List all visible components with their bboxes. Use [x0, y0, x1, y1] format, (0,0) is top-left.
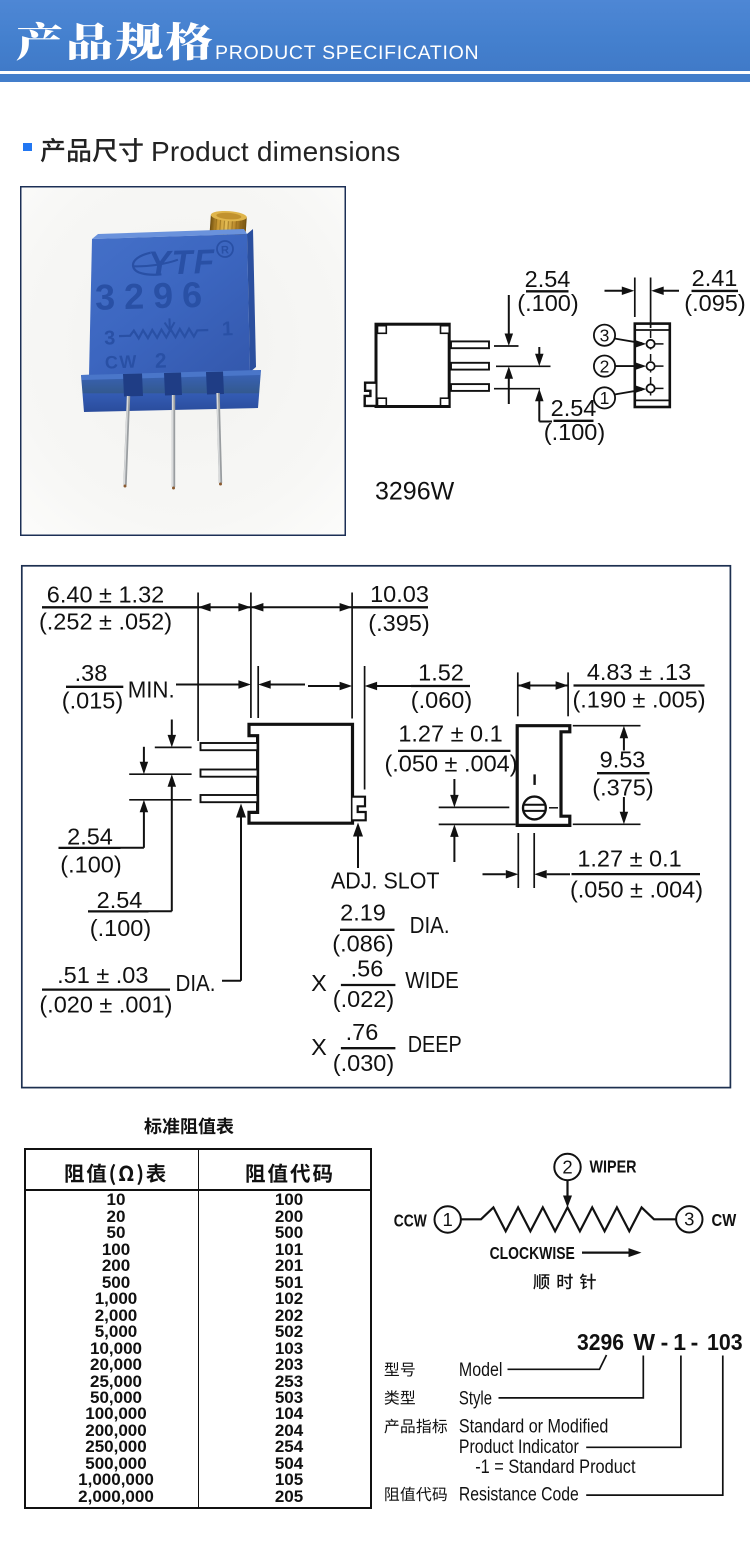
- 顺时针: [533, 1274, 549, 1289]
- svg-text:1.52: 1.52: [418, 660, 464, 686]
- brass adjustment screw: [209, 210, 247, 237]
- pin pitch arrows x=171.8: [171, 720, 173, 743]
- svg-text:R: R: [221, 244, 229, 256]
- screw: [523, 797, 546, 820]
- leader style: [499, 1356, 644, 1398]
- pins: [201, 743, 258, 750]
- svg-text:(.190 ± .005): (.190 ± .005): [572, 687, 705, 713]
- trimmer body right side face: [247, 229, 256, 372]
- svg-text:CCW: CCW: [394, 1211, 427, 1231]
- svg-text:1.27 ± 0.1: 1.27 ± 0.1: [398, 721, 502, 747]
- leader indicator: [586, 1356, 681, 1448]
- svg-text:WIDE: WIDE: [405, 967, 459, 993]
- svg-text:MIN.: MIN.: [128, 677, 175, 703]
- svg-text:(.375): (.375): [592, 775, 653, 801]
- svg-text:(.095): (.095): [684, 290, 745, 316]
- rear package: [635, 324, 670, 407]
- svg-text:(.100): (.100): [90, 915, 151, 941]
- svg-text:(.060): (.060): [411, 687, 472, 713]
- svg-text:4.83 ± .13: 4.83 ± .13: [587, 659, 691, 685]
- circled terminal numbers: [594, 325, 615, 346]
- pin pitch dim lines: [494, 345, 519, 347]
- adj slot label: [357, 828, 359, 868]
- svg-text:CW: CW: [712, 1210, 737, 1230]
- section bullet: [23, 143, 32, 152]
- svg-text:2.41: 2.41: [692, 265, 738, 291]
- svg-text:3: 3: [600, 325, 610, 345]
- svg-text:(.086): (.086): [332, 931, 393, 957]
- dim 10.03: [251, 606, 352, 608]
- table title 标准阻值表: [144, 1117, 236, 1136]
- svg-text:1: 1: [443, 1209, 453, 1230]
- label 型号: [385, 1362, 399, 1376]
- svg-text:2.54: 2.54: [551, 395, 597, 421]
- dim arrows pin2-pin3: [538, 347, 540, 361]
- trimmer body top sliver: [92, 229, 247, 239]
- svg-text:9.53: 9.53: [600, 747, 646, 773]
- wiper terminal circle 2: [554, 1154, 580, 1180]
- svg-text:103: 103: [707, 1329, 743, 1355]
- svg-text:(.030): (.030): [333, 1050, 394, 1076]
- trimmer body front face: [0, 0, 1, 1]
- 2.41 dim: [634, 278, 636, 318]
- wiper marking: [103, 316, 234, 374]
- main package outline: [249, 724, 353, 823]
- dim 1.52: [308, 685, 341, 687]
- header subtitle: [215, 42, 479, 65]
- center dashed line: [650, 331, 652, 400]
- 9.53 dim: [573, 725, 641, 727]
- YTF logo: [133, 252, 179, 276]
- base block: [0, 0, 1, 1]
- svg-text:(.100): (.100): [544, 419, 605, 445]
- svg-text:(.020 ± .001): (.020 ± .001): [39, 992, 172, 1018]
- svg-text:3296: 3296: [94, 274, 211, 318]
- corner pads: [378, 326, 387, 334]
- svg-text:DIA.: DIA.: [176, 970, 216, 996]
- legs: [125, 396, 129, 485]
- left adj tab: [365, 383, 376, 406]
- svg-text:CW: CW: [105, 351, 139, 372]
- svg-text:2.19: 2.19: [340, 900, 386, 926]
- label 类型: [385, 1390, 399, 1405]
- outer frame: [22, 566, 731, 1088]
- svg-text:X: X: [311, 970, 327, 996]
- header title 产品规格: [16, 21, 186, 65]
- resistor zigzag: [461, 1207, 676, 1231]
- wiper arrow: [566, 1181, 568, 1201]
- dim 4.83: [518, 685, 568, 687]
- svg-text:1.27 ± 0.1: 1.27 ± 0.1: [577, 846, 681, 872]
- svg-text:X: X: [311, 1034, 327, 1060]
- product photo box: [20, 186, 346, 536]
- svg-text:(.015): (.015): [62, 688, 123, 714]
- svg-text:3296W: 3296W: [375, 478, 455, 506]
- svg-text:-: -: [691, 1329, 699, 1355]
- svg-text:2: 2: [562, 1156, 572, 1177]
- svg-text:6.40 ± 1.32: 6.40 ± 1.32: [47, 582, 164, 608]
- svg-text:.56: .56: [351, 956, 384, 982]
- svg-text:(.022): (.022): [333, 986, 394, 1012]
- label 阻值代码: [385, 1487, 399, 1501]
- svg-text:(.100): (.100): [60, 852, 121, 878]
- 1.27 bottom dim: [517, 833, 519, 888]
- adj slot tab right: [353, 797, 366, 821]
- svg-text:.76: .76: [346, 1019, 379, 1045]
- package outline (side): [376, 324, 449, 406]
- svg-text:1: 1: [221, 318, 233, 340]
- svg-text:(.050 ± .004): (.050 ± .004): [384, 751, 517, 777]
- part number breakdown: [380, 1325, 750, 1520]
- svg-text:DEEP: DEEP: [408, 1031, 462, 1057]
- leader model: [508, 1355, 607, 1369]
- svg-text:ADJ. SLOT: ADJ. SLOT: [331, 868, 440, 894]
- leader resistance code: [586, 1356, 723, 1496]
- resistance table: [24, 1148, 372, 1509]
- dim arrows pin1-pin2: [508, 295, 510, 341]
- pin dim lines: [155, 746, 192, 748]
- svg-text:2: 2: [600, 356, 610, 376]
- svg-text:.38: .38: [75, 660, 108, 686]
- svg-text:2.54: 2.54: [97, 887, 143, 913]
- svg-text:W: W: [633, 1329, 655, 1355]
- svg-text:DIA.: DIA.: [410, 912, 450, 938]
- svg-text:3296: 3296: [577, 1329, 624, 1355]
- top right dimension drawing: [358, 255, 750, 510]
- clockwise arrow: [582, 1251, 630, 1253]
- svg-text:.51 ± .03: .51 ± .03: [57, 962, 148, 988]
- svg-text:2: 2: [155, 349, 167, 372]
- label 产品指标: [384, 1419, 398, 1434]
- svg-text:3: 3: [104, 327, 116, 349]
- svg-text:Product Indicator: Product Indicator: [459, 1437, 579, 1458]
- svg-text:(.252 ± .052): (.252 ± .052): [39, 609, 172, 635]
- section title 产品尺寸: [40, 137, 146, 165]
- base slots: [123, 374, 143, 397]
- svg-text:-: -: [661, 1329, 669, 1355]
- terminal circle 1: [435, 1206, 461, 1232]
- terminal holes: [647, 340, 655, 348]
- svg-text:Resistance Code: Resistance Code: [459, 1485, 579, 1506]
- rear package with screw: [517, 726, 570, 826]
- svg-text:Model: Model: [459, 1360, 503, 1381]
- svg-text:2.54: 2.54: [525, 266, 571, 292]
- svg-text:-1 = Standard Product: -1 = Standard Product: [475, 1457, 636, 1478]
- pins (side view): [451, 341, 489, 348]
- svg-text:10.03: 10.03: [370, 581, 429, 607]
- svg-text:1: 1: [600, 388, 610, 408]
- dimension drawing box: [0, 555, 750, 1100]
- svg-text:3: 3: [684, 1209, 694, 1230]
- svg-text:Standard or Modified: Standard or Modified: [459, 1416, 609, 1437]
- svg-text:2.54: 2.54: [67, 824, 113, 850]
- svg-text:1: 1: [673, 1329, 686, 1355]
- svg-text:(.395): (.395): [368, 610, 429, 636]
- svg-text:WIPER: WIPER: [590, 1157, 637, 1177]
- header banner: [0, 0, 750, 71]
- svg-text:(.050 ± .004): (.050 ± .004): [570, 877, 703, 903]
- svg-text:CLOCKWISE: CLOCKWISE: [490, 1243, 575, 1263]
- potentiometer schematic: [380, 1140, 750, 1310]
- extension lines: [197, 593, 199, 742]
- terminal circle 3: [676, 1206, 702, 1232]
- svg-text:Style: Style: [459, 1389, 492, 1410]
- pin pitch arrows x=143.9: [143, 747, 145, 769]
- svg-text:(.100): (.100): [517, 290, 578, 316]
